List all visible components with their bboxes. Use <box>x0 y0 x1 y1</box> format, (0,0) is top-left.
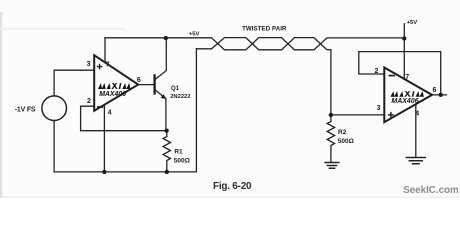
svg-text:500Ω: 500Ω <box>174 157 190 164</box>
svg-text:SeekIC.com: SeekIC.com <box>403 185 459 196</box>
svg-text:+5V: +5V <box>407 20 418 26</box>
svg-text:MAX406: MAX406 <box>99 91 126 98</box>
svg-text:6: 6 <box>432 87 436 94</box>
svg-text:7: 7 <box>405 74 409 81</box>
svg-text:2: 2 <box>87 98 91 105</box>
svg-text:6: 6 <box>137 77 141 84</box>
svg-text:-1V FS: -1V FS <box>15 106 36 113</box>
svg-text:2: 2 <box>374 68 378 75</box>
svg-text:4: 4 <box>415 111 419 118</box>
svg-text:TWISTED PAIR: TWISTED PAIR <box>242 25 287 32</box>
svg-text:R2: R2 <box>338 129 347 136</box>
svg-text:Fig. 6-20: Fig. 6-20 <box>213 181 252 192</box>
svg-text:3: 3 <box>87 61 91 68</box>
svg-text:7: 7 <box>106 61 110 68</box>
svg-text:R1: R1 <box>174 148 183 155</box>
svg-text:+5V: +5V <box>189 31 200 37</box>
svg-text:4: 4 <box>108 110 112 117</box>
svg-text:MAX406: MAX406 <box>391 98 418 105</box>
svg-text:500Ω: 500Ω <box>338 138 354 145</box>
svg-text:Q1: Q1 <box>171 86 180 92</box>
svg-text:2N2222: 2N2222 <box>170 94 190 100</box>
svg-text:3: 3 <box>377 105 381 112</box>
